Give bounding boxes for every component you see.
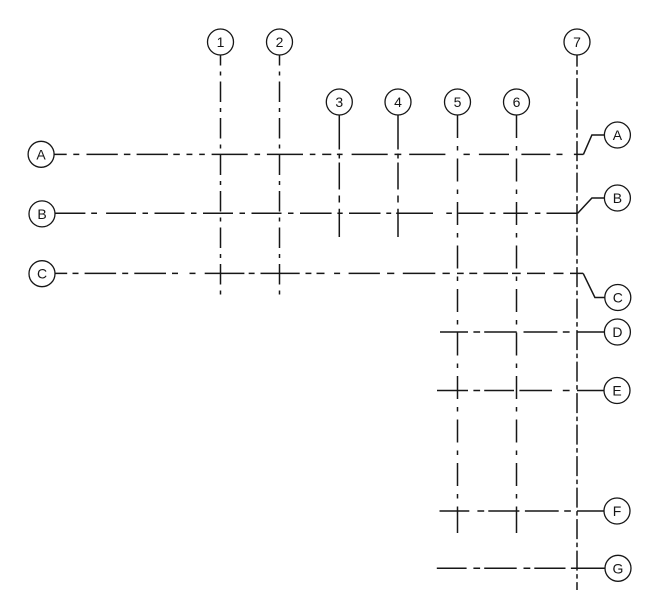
svg-text:E: E bbox=[612, 383, 621, 399]
svg-text:C: C bbox=[613, 290, 623, 306]
svg-text:F: F bbox=[613, 503, 622, 519]
svg-text:B: B bbox=[37, 206, 46, 222]
svg-text:A: A bbox=[36, 146, 46, 162]
svg-text:G: G bbox=[613, 560, 624, 576]
svg-text:A: A bbox=[613, 127, 623, 143]
svg-text:7: 7 bbox=[573, 34, 581, 50]
svg-text:C: C bbox=[37, 266, 47, 282]
svg-text:D: D bbox=[612, 324, 622, 340]
svg-text:2: 2 bbox=[276, 34, 284, 50]
svg-text:3: 3 bbox=[335, 94, 343, 110]
svg-text:4: 4 bbox=[394, 94, 402, 110]
svg-text:6: 6 bbox=[513, 94, 521, 110]
svg-text:5: 5 bbox=[454, 94, 462, 110]
svg-text:B: B bbox=[613, 190, 622, 206]
svg-text:1: 1 bbox=[217, 34, 225, 50]
